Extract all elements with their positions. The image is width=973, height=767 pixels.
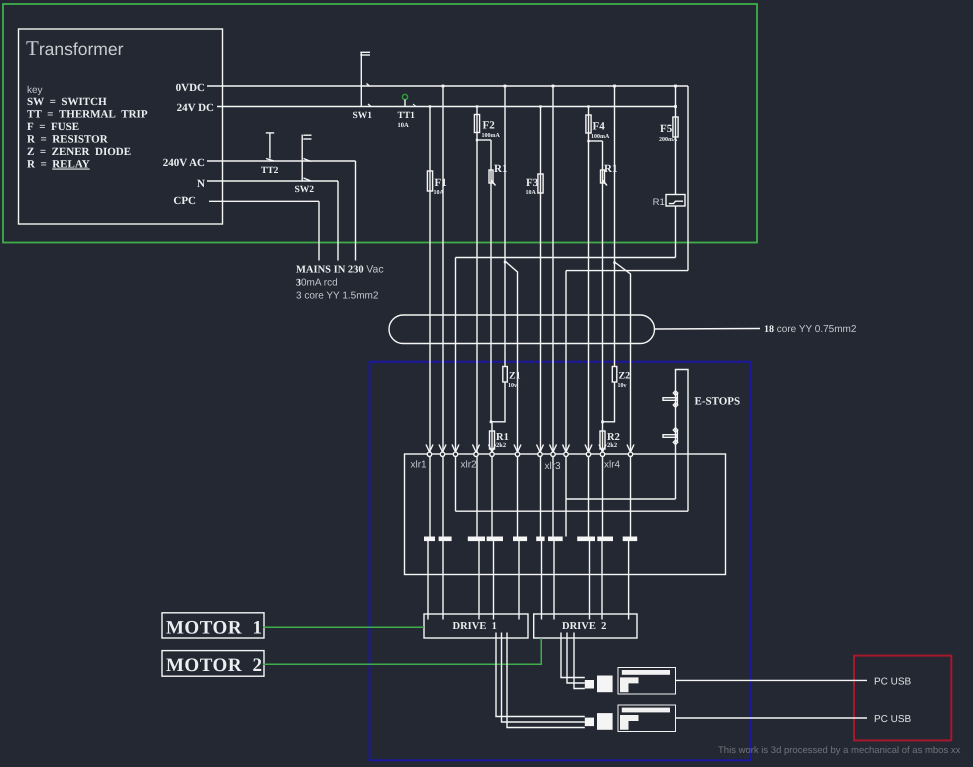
green enclosure border (3, 4, 757, 243)
svg-text:18 core YY 0.75mm2: 18 core YY 0.75mm2 (764, 324, 857, 335)
e-stop switch 2 (663, 428, 678, 445)
wire L down to mains (355, 161, 357, 261)
svg-text:DRIVE 1: DRIVE 1 (453, 621, 497, 632)
svg-text:R1: R1 (494, 163, 507, 175)
svg-text:100mA: 100mA (482, 133, 501, 139)
wire 0V drop to xlr1 pin2 (442, 86, 444, 537)
svg-text:SW = SWITCH: SW = SWITCH (27, 96, 107, 108)
wire drive2 usb c (574, 633, 585, 689)
junction dot Z2 jog (601, 421, 604, 424)
svg-text:N: N (197, 178, 205, 190)
svg-text:10A: 10A (398, 122, 410, 129)
wire CPC (209, 200, 319, 202)
svg-text:R1: R1 (653, 197, 665, 208)
svg-text:0VDC: 0VDC (176, 82, 205, 94)
svg-text:MOTOR 1: MOTOR 1 (166, 618, 263, 639)
svg-text:PC USB: PC USB (874, 677, 912, 688)
svg-text:F1: F1 (435, 177, 447, 189)
wire N down to mains (337, 181, 339, 261)
fuse F5 (673, 117, 678, 137)
junction dot 0V b (504, 85, 507, 88)
transformer box (19, 29, 223, 224)
xlr pin terminal circles (427, 452, 632, 456)
junction dot F4 jog (587, 140, 589, 142)
wire 24V DC bus (217, 106, 676, 108)
wire motor2 green (264, 638, 541, 664)
wire 0V drop through zener Z2 (614, 86, 616, 366)
terminal block row (424, 537, 435, 542)
wire drive1 usb c (507, 633, 585, 728)
cable bundle oval (389, 315, 655, 344)
svg-text:R = RESISTOR: R = RESISTOR (27, 134, 109, 146)
junction dot 0V e (674, 85, 677, 88)
svg-text:F3: F3 (526, 177, 539, 189)
svg-text:xlr3: xlr3 (545, 461, 562, 472)
svg-text:100mA: 100mA (591, 134, 610, 140)
drive 1 box (424, 614, 528, 638)
thermal trip TT1 (402, 94, 416, 106)
wire F4 column to xlr4 pin1 (588, 107, 590, 537)
junction dot 24V F1 (429, 105, 431, 107)
wire relay loop to xlr1 pin3 (455, 258, 457, 512)
wire estop loop to xlr3 pin3 (565, 271, 567, 537)
fuse F2 (474, 115, 479, 133)
svg-text:TT = THERMAL TRIP: TT = THERMAL TRIP (27, 109, 148, 121)
xlr pin arrows row (426, 445, 634, 453)
usb plug 1 (585, 676, 613, 693)
wire R1 lower to xlr2 pin2 (491, 422, 493, 537)
junction dot 0V d (613, 85, 616, 88)
svg-text:DRIVE 2: DRIVE 2 (562, 621, 606, 632)
switch SW2 (302, 135, 311, 181)
wire usb1 to pc (676, 679, 868, 681)
fuse F3 (538, 174, 543, 193)
svg-text:2k2: 2k2 (496, 442, 506, 449)
junction dot 24V F3 (539, 105, 541, 107)
svg-text:key: key (27, 85, 43, 96)
wire 0V drop through zener Z1 (504, 86, 506, 366)
junction dot 24V F2 (476, 105, 478, 107)
motor 1 box (162, 613, 264, 638)
svg-text:MOTOR 2: MOTOR 2 (166, 655, 263, 676)
svg-text:240V AC: 240V AC (163, 157, 205, 169)
wire CPC down to mains (318, 201, 320, 260)
svg-text:F = FUSE: F = FUSE (27, 121, 79, 133)
wire jog F2 to R1 (477, 139, 491, 141)
svg-text:10v: 10v (508, 383, 517, 389)
e-stop switch 1 (663, 391, 678, 407)
wire drive2 usb a (561, 633, 585, 678)
wire drive1 usb a (496, 633, 585, 717)
svg-text:24V DC: 24V DC (177, 102, 214, 114)
svg-text:10v: 10v (618, 383, 627, 389)
wire R1 column b down (602, 141, 604, 422)
wire diag 0V to xlr4 pin4 (615, 262, 631, 537)
wire 240V AC (207, 160, 356, 162)
wire drive1 usb b (502, 633, 585, 723)
svg-text:xlr4: xlr4 (604, 460, 621, 471)
junction dot F2 jog (476, 139, 478, 141)
svg-text:TT2: TT2 (261, 166, 279, 176)
junction dot 0V diag b (613, 261, 615, 263)
wire drive2 usb b (567, 633, 585, 684)
svg-text:Transformer: Transformer (26, 36, 124, 60)
wire Z1 to jog (491, 382, 505, 422)
svg-text:200mA: 200mA (659, 137, 678, 143)
svg-text:Z = ZENER DIODE: Z = ZENER DIODE (27, 146, 131, 158)
svg-text:SW1: SW1 (353, 111, 373, 121)
svg-text:SW2: SW2 (295, 185, 315, 195)
svg-text:R1: R1 (604, 163, 617, 175)
blue enclosure border (370, 362, 751, 761)
wire F3 column to xlr3 pin1 (540, 107, 542, 537)
svg-text:30mA rcd: 30mA rcd (296, 278, 338, 289)
svg-text:Z2: Z2 (619, 371, 631, 382)
wire drive feeds below terminals (428, 541, 629, 620)
wire diag 0V to xlr2 pin4 (505, 261, 518, 537)
wire Z2 to jog (603, 382, 615, 422)
svg-text:This work is 3d processed by a: This work is 3d processed by a mechanica… (718, 745, 961, 756)
wire jog F4 to R1 (589, 140, 603, 142)
wire R1 column down (490, 140, 492, 422)
svg-text:xlr1: xlr1 (411, 460, 428, 471)
wire motor1 green (264, 626, 424, 628)
zener Z1 (503, 367, 508, 383)
svg-text:2k2: 2k2 (607, 442, 617, 449)
fuse F4 (586, 115, 591, 133)
wire 0VDC bus (207, 85, 688, 87)
svg-text:F5: F5 (660, 123, 673, 135)
resistor R1 upper b (601, 170, 608, 186)
svg-text:Z1: Z1 (509, 371, 521, 382)
wire 0V right drop (687, 86, 689, 271)
motor 2 box (162, 651, 264, 677)
junction dot 24V a (674, 105, 677, 108)
junction dot 0V a (442, 85, 445, 88)
relay R1 (666, 195, 685, 207)
svg-text:MAINS IN 230 Vac: MAINS IN 230 Vac (296, 264, 384, 276)
resistor R1 upper a (489, 170, 496, 186)
xlr connector box (405, 454, 726, 575)
wire H1 relay loop horizontal (456, 257, 676, 259)
usb plug 2 (585, 713, 613, 730)
svg-text:F2: F2 (483, 120, 496, 132)
wire H5 relay return (456, 510, 689, 512)
resistor R1 lower (490, 431, 495, 449)
svg-text:TT1: TT1 (398, 111, 416, 121)
wire R2 lower to xlr4 pin2 (602, 422, 604, 537)
zener Z2 (612, 367, 617, 383)
usb body 1 (618, 667, 676, 694)
junction dot 24V F4 (587, 105, 589, 107)
junction dot 0V c (552, 85, 555, 88)
wire cable label leader (655, 328, 761, 331)
wire F5 relay column (675, 86, 677, 194)
thermal trip TT2 (266, 133, 274, 162)
svg-text:E-STOPS: E-STOPS (695, 396, 741, 408)
junction dot 0V diag a (504, 261, 506, 263)
svg-text:10A: 10A (434, 190, 445, 196)
svg-text:3 core YY 1.5mm2: 3 core YY 1.5mm2 (296, 291, 379, 302)
wire estop chain (676, 370, 689, 512)
svg-text:PC USB: PC USB (874, 714, 912, 725)
switch SW1 (360, 52, 371, 107)
red PC enclosure border (854, 656, 951, 741)
svg-text:xlr2: xlr2 (461, 460, 478, 471)
wire usb2 to pc (676, 717, 868, 719)
resistor R2 lower (600, 431, 605, 449)
wire N (207, 180, 338, 182)
usb body 2 (618, 705, 676, 732)
drive 2 box (534, 614, 637, 638)
wire H4 estop return (566, 498, 676, 500)
junction dot Z1 jog (490, 421, 493, 424)
wire F2 column to xlr2 pin1 (476, 107, 478, 537)
svg-text:R = RELAY: R = RELAY (27, 159, 90, 171)
svg-text:10A: 10A (526, 190, 537, 196)
wire H2 estop loop horizontal (566, 270, 688, 272)
wire 0V drop to xlr3 pin2 (552, 86, 554, 537)
wire F1 column to xlr1 pin1 (429, 107, 431, 537)
svg-text:CPC: CPC (173, 195, 196, 207)
svg-text:F4: F4 (593, 121, 606, 133)
wire relay R1 bottom to H1 (675, 207, 677, 258)
fuse F1 (427, 171, 432, 191)
